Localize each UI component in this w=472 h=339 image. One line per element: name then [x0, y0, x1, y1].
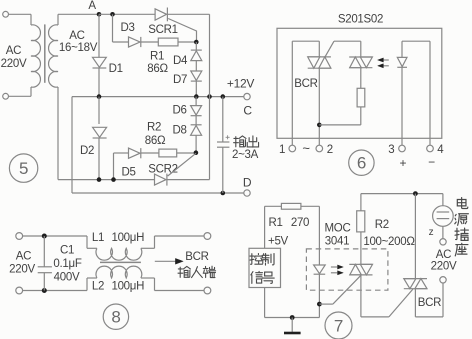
resistor R2 100~200 [357, 211, 365, 232]
diode D1 [98, 14, 100, 57]
wire MOC triac bottom to BCR gate [360, 275, 362, 317]
wire BCR to terminal 2 [318, 68, 320, 145]
left frame wire of circuit 5 [71, 97, 73, 193]
label dianyuan chazuo (power socket) [457, 198, 467, 209]
ground symbol [291, 318, 293, 332]
wire R2 to junction [177, 152, 196, 154]
svg-text:L2: L2 [92, 281, 104, 293]
ground junction dot [290, 315, 295, 320]
resistor R1 860 [158, 38, 178, 46]
svg-text:8: 8 [111, 308, 120, 327]
junction dot C1 top [42, 234, 47, 239]
wire D3 to R1 [141, 41, 159, 43]
svg-text:2: 2 [327, 144, 333, 156]
terminal 3 circle [399, 145, 406, 152]
svg-text:+5V: +5V [268, 236, 289, 248]
diode D2 [98, 97, 100, 124]
junction dot (resistor to terminal2 line) [317, 123, 322, 128]
svg-text:AC: AC [16, 251, 31, 263]
svg-text:z: z [429, 227, 434, 238]
svg-text:AC: AC [6, 45, 21, 57]
junction dot mid rail / SCR column [207, 94, 212, 99]
light arrows to phototriac [384, 59, 389, 61]
svg-text:AC: AC [436, 249, 451, 261]
junction dot C1 bottom [42, 288, 47, 293]
secondary bottom rail [57, 87, 59, 180]
junction dot D2 bottom [97, 177, 102, 182]
circle number 7 [325, 312, 352, 339]
photo triac of MOC3041 [349, 263, 372, 265]
junction dot bottom rail / capacitor [221, 191, 226, 196]
inductor L1 100uH [86, 236, 88, 248]
SCR2 gate wire [168, 153, 196, 176]
circle number 8 [103, 304, 128, 329]
diode D4 (points up) [195, 42, 197, 51]
transformer T1 core [44, 24, 46, 82]
svg-text:3041: 3041 [325, 236, 349, 248]
diode D7 (points down) [195, 61, 197, 71]
svg-text:2~3A: 2~3A [232, 149, 259, 161]
filter core line [100, 261, 141, 263]
svg-text:400V: 400V [54, 272, 80, 284]
terminal C circle [244, 93, 250, 99]
svg-text:+: + [399, 156, 406, 170]
LED of S201S02 [401, 41, 403, 57]
top wire circuit 7 [361, 193, 443, 195]
svg-text:~: ~ [302, 141, 310, 156]
svg-text:BCR: BCR [185, 251, 208, 263]
triac BCR (circuit 7) [404, 278, 427, 280]
MOC3041 dashed box [306, 249, 388, 290]
diode D3 [129, 37, 141, 47]
svg-text:SCR1: SCR1 [148, 24, 177, 36]
AC terminal top (circuit 7) [440, 239, 446, 245]
resistor inside S201S02 [357, 88, 365, 107]
svg-text:S201S02: S201S02 [338, 14, 383, 26]
svg-text:L1: L1 [92, 232, 104, 244]
svg-text:C: C [243, 104, 252, 118]
triac BCR of S201S02 [308, 56, 331, 58]
photo triac of S201S02 [349, 56, 372, 58]
wire terminal1 vertical [291, 41, 293, 145]
svg-text:D: D [243, 176, 252, 190]
SCR2 thyristor [155, 174, 167, 185]
wire R1 left lead (circuit 7) [265, 205, 282, 207]
svg-text:220V: 220V [1, 58, 27, 70]
wire L2 to right terminal [155, 290, 204, 292]
wire D3 branch down [112, 14, 114, 42]
wire BCR bottom to AC [414, 289, 416, 317]
diode D5 [129, 148, 141, 158]
svg-text:100μH: 100μH [111, 281, 144, 293]
junction dot mid rail / D1-D2 [97, 94, 102, 99]
wire BCR top [414, 194, 416, 279]
diode D8 (points up) [195, 116, 197, 125]
svg-text:MOC: MOC [325, 223, 351, 235]
terminal 4 circle [427, 145, 434, 152]
svg-text:D4: D4 [173, 55, 188, 67]
wire R2 to MOC triac [360, 232, 362, 265]
svg-text:−: − [428, 155, 435, 169]
svg-text:C1: C1 [60, 245, 74, 257]
svg-text:7: 7 [334, 317, 343, 336]
svg-text:6: 6 [357, 154, 366, 173]
svg-text:1: 1 [279, 144, 285, 156]
wire resistor to junction [360, 107, 362, 125]
wire R2 top [360, 194, 362, 211]
svg-text:D7: D7 [173, 74, 187, 86]
label kongzhi xinhao (control signal) [250, 254, 262, 265]
svg-text:R2: R2 [147, 122, 161, 134]
junction dot (R2/D8/SCR2 gate) [194, 150, 199, 155]
terminal 1 circle [289, 145, 296, 152]
terminal D circle [244, 190, 250, 196]
svg-text:16~18V: 16~18V [59, 42, 98, 54]
bottom rail of circuit 5 [72, 192, 244, 194]
MOC triac gate wire [319, 303, 333, 305]
junction dot (R1/gate/D4) [194, 40, 199, 45]
svg-text:D1: D1 [109, 63, 123, 75]
SCR1 gate wire [168, 19, 196, 43]
control signal box [249, 248, 281, 287]
terminal 2 circle [316, 145, 323, 152]
svg-text:86Ω: 86Ω [147, 63, 168, 75]
capacitor C1 [43, 236, 45, 267]
svg-text:BCR: BCR [418, 297, 441, 309]
svg-text:SCR2: SCR2 [148, 164, 177, 176]
wire LED top to terminal 4 [402, 40, 430, 42]
svg-text:D8: D8 [172, 125, 186, 137]
resistor R2 860 [159, 149, 177, 157]
svg-text:BCR: BCR [294, 78, 317, 90]
svg-text:AC: AC [69, 30, 84, 42]
svg-text:D6: D6 [172, 105, 186, 117]
junction dot LED line [317, 302, 322, 307]
svg-text:220V: 220V [9, 264, 35, 276]
svg-text:D5: D5 [121, 167, 135, 179]
circle number 6 [349, 150, 374, 175]
inductor L2 100uH [86, 278, 88, 291]
wire gate segment to phototriac [334, 40, 361, 42]
transformer T1 primary winding [30, 14, 32, 25]
svg-text:A: A [88, 0, 96, 12]
wire SCR column vertical [209, 14, 211, 179]
mid rail wire [72, 96, 244, 98]
transformer T1 secondary winding [49, 25, 58, 87]
junction dot (D3 branch) [110, 12, 115, 17]
svg-text:100~200Ω: 100~200Ω [363, 236, 415, 248]
svg-text:R1: R1 [150, 51, 164, 63]
terminal right top (circuit 8) [204, 233, 211, 240]
svg-text:+12V: +12V [227, 77, 254, 91]
wire secondary top to node A [58, 13, 99, 15]
svg-text:R1: R1 [268, 217, 282, 229]
capacitor plus sign [226, 136, 230, 138]
wire R1 to junction [178, 41, 196, 43]
AC 220V source terminal (bottom) of circuit 5 [3, 93, 9, 99]
light arrows from LED [331, 266, 337, 268]
svg-text:5: 5 [19, 159, 28, 178]
junction dot mid rail / D4-D6 [194, 94, 199, 99]
AC terminal bottom (circuit 7) [440, 277, 446, 283]
junction dot mid rail / capacitor [221, 94, 226, 99]
wire L1 to right terminal [155, 235, 204, 237]
BCR gate wire (circuit 6) [325, 41, 334, 57]
arrow to BCR input [155, 260, 177, 262]
wire D5 to R2 [141, 152, 159, 154]
LED of MOC3041 [314, 265, 326, 274]
svg-text:D3: D3 [120, 22, 134, 34]
wire node A to SCR1 [99, 13, 155, 15]
label shurudaun (input terminal) [178, 266, 190, 277]
svg-text:4: 4 [437, 144, 444, 156]
svg-text:270: 270 [291, 217, 309, 229]
node A junction [97, 12, 102, 17]
SCR1 thyristor [155, 9, 167, 20]
capacitor C output (electrolytic) [222, 97, 224, 142]
svg-text:86Ω: 86Ω [145, 135, 166, 147]
AC 220V source terminal (top) of circuit 5 [3, 11, 9, 17]
wire SCR1 cathode to right corner [167, 13, 209, 15]
wire SCR2 cathode to column [167, 179, 210, 181]
AC terminal top (circuit 8) [16, 233, 23, 240]
svg-text:D2: D2 [80, 145, 94, 157]
power socket symbol [442, 194, 444, 206]
wire R1 right lead [301, 205, 320, 207]
AC terminal bottom (circuit 8) [16, 287, 23, 294]
label shuchu (output) [234, 136, 246, 147]
junction dot top wire / BCR [413, 191, 418, 196]
diode D6 (points down) [195, 97, 197, 106]
svg-text:220V: 220V [431, 261, 457, 273]
wire phototriac to resistor [360, 68, 362, 89]
terminal right bottom (circuit 8) [204, 287, 211, 294]
S201S02 outer box [277, 28, 442, 138]
wire D5 branch [113, 153, 115, 180]
junction dot D5 branch bottom [111, 177, 116, 182]
svg-text:0.1μF: 0.1μF [53, 258, 81, 270]
svg-text:R2: R2 [375, 219, 389, 231]
wire control box to ground rail [264, 288, 266, 318]
wire top segment to BCR [292, 40, 319, 42]
circle number 5 [9, 154, 37, 182]
resistor R1 270 [281, 203, 301, 209]
svg-text:100μH: 100μH [111, 232, 144, 244]
svg-text:3: 3 [388, 144, 394, 156]
